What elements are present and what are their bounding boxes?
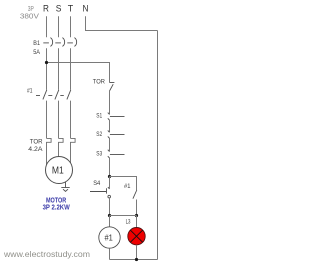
wire lamp to bottom rail xyxy=(136,245,138,260)
lamp L3 xyxy=(128,228,145,245)
svg-text:MOTOR: MOTOR xyxy=(46,197,66,204)
contactor #1 main contact pole 3 xyxy=(67,90,71,139)
circuit breaker B1 pole 2 xyxy=(55,38,64,47)
TOR NC contact xyxy=(110,83,115,92)
coil #1 xyxy=(99,227,120,248)
motor label xyxy=(43,197,71,211)
node junction on R xyxy=(45,61,48,64)
wire right rail xyxy=(157,31,159,260)
pushbutton S3 xyxy=(108,150,125,158)
breaker B1 label xyxy=(33,40,41,56)
svg-text:M1: M1 xyxy=(52,165,64,177)
svg-text:#1: #1 xyxy=(104,232,113,242)
wire to coil xyxy=(109,216,111,228)
contactor #1 main contact pole 2 xyxy=(55,90,59,139)
wire junction B to C xyxy=(110,215,137,217)
wire to lamp xyxy=(136,216,138,228)
overload relay TOR pole 1 xyxy=(47,138,52,165)
aux contact #1 xyxy=(133,190,137,216)
svg-text:5A: 5A xyxy=(33,49,41,56)
wire S4 top xyxy=(109,177,111,189)
wire control feed from R xyxy=(47,63,110,83)
ground xyxy=(61,182,69,192)
wire S3 to junction xyxy=(109,157,111,176)
wire branch to #1 contact xyxy=(110,177,137,191)
svg-text:#1: #1 xyxy=(124,183,131,190)
svg-text:S1: S1 xyxy=(96,113,102,120)
node junction D xyxy=(135,258,138,261)
wire R phase top xyxy=(46,16,48,37)
pushbutton S1 xyxy=(108,113,125,121)
svg-text:#1: #1 xyxy=(27,87,33,94)
node junction B xyxy=(108,214,111,217)
svg-text:S4: S4 xyxy=(93,180,101,187)
svg-text:www.electrostudy.com: www.electrostudy.com xyxy=(3,250,90,259)
motor M1 xyxy=(46,157,73,184)
svg-text:TOR: TOR xyxy=(30,139,43,146)
wire N to right rail xyxy=(86,16,158,30)
svg-text:3P: 3P xyxy=(28,6,34,13)
wire TOR to S1 xyxy=(109,91,111,114)
svg-text:R: R xyxy=(43,4,49,14)
wire R phase mid xyxy=(46,48,48,89)
wire T phase mid xyxy=(70,48,72,89)
contactor linkage dashes xyxy=(36,95,64,97)
svg-text:B1: B1 xyxy=(33,40,40,47)
svg-text:TOR: TOR xyxy=(93,78,106,85)
pushbutton S2 xyxy=(108,130,125,138)
pushbutton S4 xyxy=(90,187,110,198)
svg-text:N: N xyxy=(83,4,89,14)
svg-text:T: T xyxy=(68,4,74,14)
overload relay TOR pole 3 xyxy=(71,138,76,163)
wire S phase top xyxy=(58,16,60,37)
svg-text:L3: L3 xyxy=(126,219,131,226)
circuit breaker B1 pole 1 xyxy=(43,38,52,47)
svg-text:S2: S2 xyxy=(96,131,102,138)
wire bottom rail xyxy=(110,259,158,261)
svg-text:S3: S3 xyxy=(96,150,102,157)
overload relay TOR pole 2 xyxy=(59,138,64,156)
svg-text:3P 2.2KW: 3P 2.2KW xyxy=(43,205,71,212)
svg-text:4.2A: 4.2A xyxy=(28,146,43,153)
overload relay TOR label xyxy=(28,139,43,153)
node junction C xyxy=(135,214,138,217)
wire S1 to S2 xyxy=(109,120,111,133)
wire S4 to junction B xyxy=(109,198,111,216)
wire T phase top xyxy=(70,16,72,37)
svg-text:380V: 380V xyxy=(20,14,39,21)
wire S2 to S3 xyxy=(109,138,111,152)
wire coil to bottom rail xyxy=(109,248,111,259)
contactor #1 main contact pole 1 xyxy=(43,90,47,139)
svg-text:S: S xyxy=(56,4,62,14)
node junction A xyxy=(108,175,111,178)
circuit breaker B1 pole 3 xyxy=(67,38,76,47)
label 3P 380V xyxy=(20,6,39,20)
wire S phase mid xyxy=(58,48,60,89)
